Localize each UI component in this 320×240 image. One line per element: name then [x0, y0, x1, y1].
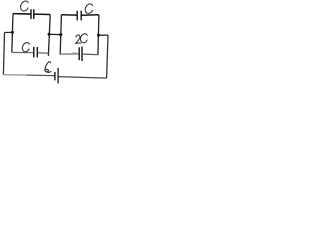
capacitor C3 left plate — [33, 47, 35, 58]
wire mid-right vertical F to I — [60, 15, 61, 55]
label battery emf script E — [45, 62, 51, 73]
capacitor C1 left plate — [30, 9, 32, 19]
wire outer-left vertical J to K — [3, 33, 4, 75]
wire battery plus to L — [59, 77, 107, 79]
wire left vertical A to E — [12, 14, 13, 53]
wire 2C to node H — [82, 53, 98, 56]
wire C1 to node B — [34, 13, 50, 15]
wire bottom-left K toward battery — [3, 74, 26, 76]
wire mid-left vertical B to C — [48, 15, 50, 56]
wire right vertical G to H — [98, 15, 99, 55]
capacitor C2 right plate — [80, 11, 82, 21]
label C4 value 2C — [76, 34, 87, 43]
wire outer-right vertical L to M — [107, 35, 108, 78]
capacitor C4 left plate — [78, 47, 80, 60]
battery B1 long plate — [57, 68, 59, 84]
label C2 value C — [85, 4, 92, 14]
capacitor C1 right plate — [33, 9, 35, 19]
wire C3 to node C — [38, 52, 49, 54]
wire lower-right I to 2C — [60, 53, 79, 55]
wire C2 to node G — [81, 14, 99, 16]
wire battery stub M to D3 — [99, 34, 109, 36]
capacitor C3 right plate — [36, 47, 38, 58]
capacitor C4 right plate — [81, 47, 83, 61]
node D1 junction dot — [48, 33, 51, 36]
node D2 junction dot — [59, 33, 62, 36]
capacitor C2 left plate — [76, 11, 78, 21]
label C1 value C — [21, 1, 29, 11]
wire top-left loop top (node A to C1) — [13, 13, 31, 15]
wire middle link D1 to D2 — [49, 33, 61, 35]
wire faint retrace left of 2C — [73, 52, 79, 53]
node D3 junction dot — [97, 34, 100, 37]
wire battery stub D0 to J — [5, 31, 13, 33]
wire bottom toward battery minus — [26, 74, 54, 77]
battery B1 short plate — [54, 72, 56, 80]
wire lower-left E to C3 — [12, 51, 34, 53]
wire top-right loop top (node F to C2) — [61, 14, 77, 16]
label C3 value C — [22, 43, 29, 52]
node D0 junction dot — [11, 31, 14, 34]
